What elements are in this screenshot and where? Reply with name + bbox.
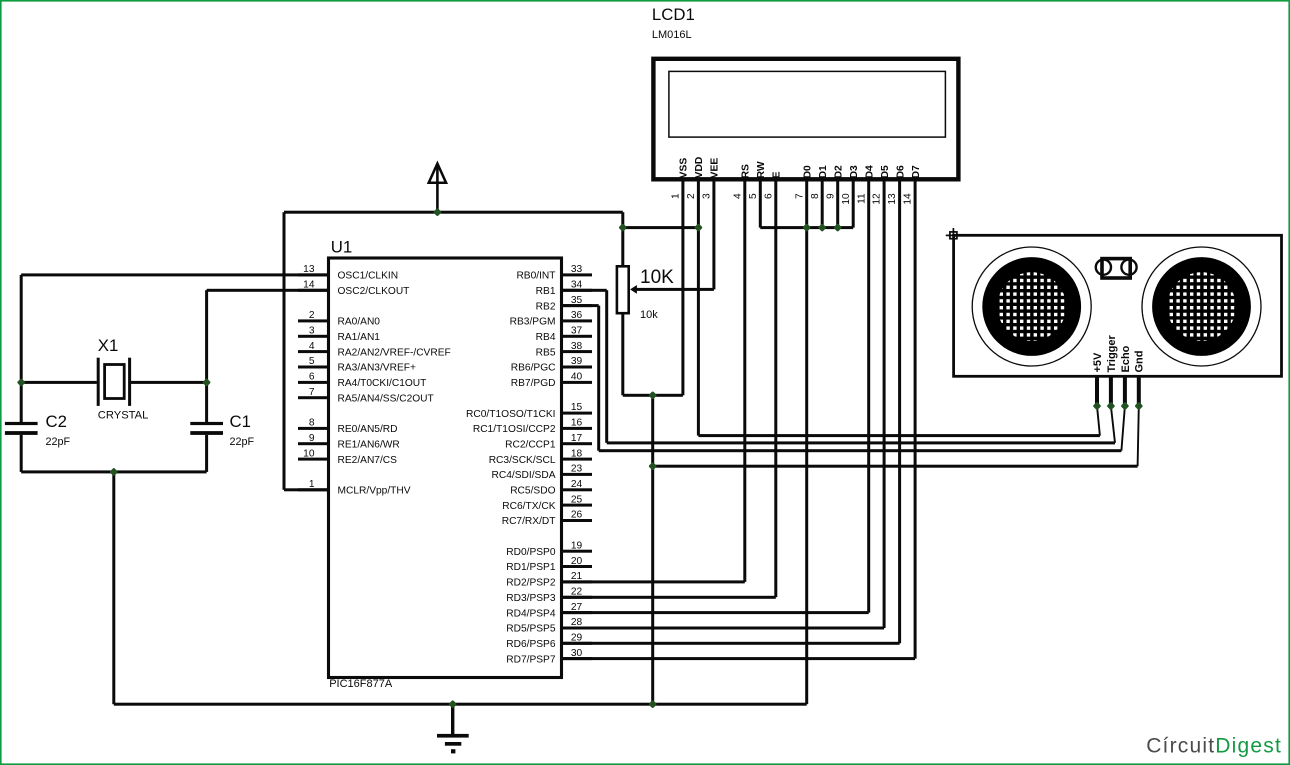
wire sensor Gnd return: [653, 465, 1138, 468]
U1 pin 29 RD6/PSP6 stub: [562, 642, 593, 645]
svg-text:RD6/PSP6: RD6/PSP6: [506, 639, 556, 650]
U1 pin 23 RC4/SDI/SDA stub: [562, 473, 593, 476]
wire LCD D0 column to ground rail: [805, 181, 808, 704]
svg-text:1: 1: [671, 193, 682, 199]
wire RW/D0-D3 tie bus: [760, 226, 853, 229]
U1 pin 27 RD4/PSP4 stub: [562, 611, 593, 614]
svg-text:22pF: 22pF: [46, 436, 71, 448]
crystal X1: [97, 358, 100, 406]
capacitor C1: [190, 422, 223, 425]
wire LCD D2 column: [836, 181, 839, 227]
svg-text:+5V: +5V: [1092, 352, 1104, 373]
U1 pin 25 RC6/TX/CK stub: [562, 504, 593, 507]
svg-text:6: 6: [309, 372, 315, 383]
svg-text:25: 25: [571, 494, 583, 505]
sensor pin Gnd stub: [1137, 376, 1141, 406]
U1 pin 4 RA2/AN2/VREF-/CVREF stub: [298, 350, 329, 353]
wire crystal rail to ground rail: [112, 472, 115, 704]
wire D5 to U1 RD5: [562, 627, 884, 630]
wire LCD RW column: [759, 181, 762, 227]
wire RB2 to sensor Echo: [599, 449, 1122, 452]
svg-text:20: 20: [571, 556, 583, 567]
U1 pin 16 RC1/T1OSI/CCP2 stub: [562, 427, 593, 430]
svg-text:6: 6: [763, 193, 774, 199]
wire U1 RB2 out: [562, 304, 599, 307]
wire pot top to VDD column: [623, 226, 699, 229]
wire pot bottom to VSS column: [623, 394, 683, 397]
svg-text:14: 14: [303, 279, 315, 290]
svg-text:2: 2: [686, 193, 697, 199]
svg-text:RE2/AN7/CS: RE2/AN7/CS: [338, 455, 398, 466]
U1 pin 28 RD5/PSP5 stub: [562, 627, 593, 630]
wire LCD E column: [774, 181, 777, 597]
wire left crystal rail: [20, 275, 23, 423]
wire LCD VSS to pot bottom: [681, 181, 684, 395]
sensor pin Trigger stub: [1109, 376, 1113, 406]
svg-text:OSC1/CLKIN: OSC1/CLKIN: [338, 271, 399, 282]
svg-text:34: 34: [571, 279, 583, 290]
U1 pin 7 RA5/AN4/SS/C2OUT stub: [298, 396, 329, 399]
svg-text:RB5: RB5: [536, 347, 556, 358]
capacitor C2: [5, 422, 38, 425]
svg-text:U1: U1: [331, 238, 352, 257]
wire OSC1 pin13 to left rail: [21, 273, 328, 276]
wire crystal right lead: [131, 381, 207, 384]
wire U1 RB1 out: [562, 289, 607, 292]
wire LCD VDD column: [697, 181, 700, 435]
U1 pin 6 RA4/T0CKI/C1OUT stub: [298, 381, 329, 384]
svg-text:RC5/SDO: RC5/SDO: [510, 486, 555, 497]
U1 pin 34 RB1 stub: [562, 289, 593, 292]
svg-text:C2: C2: [46, 412, 67, 431]
LCD1 screen window: [669, 71, 946, 137]
svg-text:2: 2: [309, 310, 315, 321]
wire crystal left lead: [21, 381, 97, 384]
svg-text:RD3/PSP3: RD3/PSP3: [506, 593, 556, 604]
U1 pin 20 RD1/PSP1 stub: [562, 565, 593, 568]
wire sensor +5V drop: [1097, 406, 1100, 436]
wire C1 bottom lead: [205, 435, 208, 472]
wire RS to U1 RD2: [562, 580, 745, 583]
U1 pin 13 OSC1/CLKIN stub: [298, 273, 329, 276]
svg-text:4: 4: [309, 341, 315, 352]
U1 pin 2 RA0/AN0 stub: [298, 319, 329, 322]
wire sensor Gnd drop: [1138, 406, 1139, 466]
potentiometer RV 10K body: [617, 266, 629, 313]
svg-text:D5: D5: [880, 165, 891, 178]
svg-text:RB2: RB2: [536, 301, 556, 312]
wire E to U1 RD3: [562, 596, 776, 599]
svg-text:D7: D7: [911, 165, 922, 178]
svg-text:CírcuitDigest: CírcuitDigest: [1146, 735, 1282, 758]
junction ground symbol node: [448, 700, 457, 709]
svg-text:9: 9: [825, 193, 836, 199]
ultrasonic sensor module HC-SR04 board: [954, 235, 1282, 376]
wire OSC2 pin14 to right rail: [207, 289, 329, 292]
svg-text:18: 18: [571, 448, 583, 459]
svg-text:LM016L: LM016L: [652, 29, 692, 41]
U1 pin 36 RB3/PGM stub: [562, 319, 593, 322]
wire LCD D4 column: [867, 181, 870, 612]
svg-text:D3: D3: [849, 165, 860, 178]
svg-text:15: 15: [571, 402, 583, 413]
svg-text:RD7/PSP7: RD7/PSP7: [506, 654, 556, 665]
svg-text:17: 17: [571, 433, 583, 444]
svg-text:RC1/T1OSI/CCP2: RC1/T1OSI/CCP2: [473, 424, 556, 435]
wire sensor Trigger drop: [1111, 406, 1115, 443]
sensor origin crosshair marker: [946, 228, 961, 243]
U1 pin 22 RD3/PSP3 stub: [562, 596, 593, 599]
svg-text:12: 12: [872, 193, 883, 205]
U1 pin 5 RA3/AN3/VREF+ stub: [298, 366, 329, 369]
svg-text:RC2/CCP1: RC2/CCP1: [505, 439, 556, 450]
svg-text:37: 37: [571, 326, 583, 337]
svg-text:14: 14: [903, 193, 914, 205]
junction pot top node: [618, 223, 627, 232]
svg-text:4: 4: [732, 193, 743, 199]
svg-text:RC6/TX/CK: RC6/TX/CK: [502, 501, 555, 512]
svg-text:X1: X1: [98, 336, 119, 355]
junction D2 tie: [833, 223, 842, 232]
svg-text:RB0/INT: RB0/INT: [516, 271, 555, 282]
wire RB1 vertical: [605, 290, 608, 443]
sensor pin Echo stub: [1123, 376, 1127, 406]
svg-text:RA0/AN0: RA0/AN0: [338, 317, 381, 328]
svg-text:16: 16: [571, 418, 583, 429]
svg-text:PIC16F877A: PIC16F877A: [329, 678, 393, 690]
U1 pin 30 RD7/PSP7 stub: [562, 657, 593, 660]
svg-text:RA1/AN1: RA1/AN1: [338, 332, 381, 343]
svg-text:VDD: VDD: [694, 157, 705, 179]
svg-text:RD5/PSP5: RD5/PSP5: [506, 624, 556, 635]
svg-text:RW: RW: [756, 161, 767, 178]
svg-text:Echo: Echo: [1120, 345, 1132, 372]
svg-text:RC3/SCK/SCL: RC3/SCK/SCL: [489, 455, 556, 466]
svg-text:RD4/PSP4: RD4/PSP4: [506, 608, 556, 619]
svg-text:3: 3: [309, 326, 315, 337]
svg-text:38: 38: [571, 341, 583, 352]
wire LCD D1 column: [821, 181, 824, 227]
svg-text:7: 7: [309, 387, 315, 398]
power +5V arrow: [436, 165, 439, 213]
svg-text:RB6/PGC: RB6/PGC: [511, 363, 556, 374]
U1 pin 19 RD0/PSP0 stub: [562, 550, 593, 553]
svg-text:RA4/T0CKI/C1OUT: RA4/T0CKI/C1OUT: [338, 378, 427, 389]
svg-text:RC4/SDI/SDA: RC4/SDI/SDA: [492, 470, 556, 481]
svg-text:MCLR/Vpp/THV: MCLR/Vpp/THV: [338, 486, 411, 497]
sensor pin +5V stub: [1095, 376, 1099, 406]
wire LCD RS column: [743, 181, 746, 582]
U1 pin 38 RB5 stub: [562, 350, 593, 353]
wire LCD VEE column: [712, 181, 715, 289]
svg-text:19: 19: [571, 540, 583, 551]
svg-text:RD2/PSP2: RD2/PSP2: [506, 578, 556, 589]
junction on +5V rail: [433, 208, 442, 217]
svg-text:VSS: VSS: [679, 158, 690, 179]
svg-text:10k: 10k: [640, 309, 658, 321]
svg-text:5: 5: [309, 356, 315, 367]
junction VDD node: [694, 223, 703, 232]
svg-text:8: 8: [810, 193, 821, 199]
junction pot bottom ground node: [648, 391, 657, 400]
svg-text:RA2/AN2/VREF-/CVREF: RA2/AN2/VREF-/CVREF: [338, 347, 451, 358]
wire D7 to U1 RD7: [562, 657, 915, 660]
svg-text:C1: C1: [230, 412, 251, 431]
microcontroller U1 PIC16F877A body: [329, 258, 562, 678]
wire crystal bottom rail: [21, 470, 206, 473]
svg-text:RD1/PSP1: RD1/PSP1: [506, 562, 556, 573]
svg-text:OSC2/CLKOUT: OSC2/CLKOUT: [338, 286, 410, 297]
pot wiper arrow: [630, 285, 637, 294]
svg-text:D6: D6: [895, 165, 906, 178]
svg-text:RC0/T1OSO/T1CKI: RC0/T1OSO/T1CKI: [466, 409, 555, 420]
wire LCD D6 column: [898, 181, 901, 643]
svg-text:D2: D2: [834, 165, 845, 178]
wire VDD to sensor +5V: [698, 434, 1100, 437]
wire C2 bottom lead: [20, 435, 23, 472]
svg-text:8: 8: [309, 418, 315, 429]
svg-text:5: 5: [748, 193, 759, 199]
svg-text:RS: RS: [741, 164, 752, 178]
svg-text:13: 13: [887, 193, 898, 205]
wire right crystal rail: [205, 290, 208, 422]
svg-text:VEE: VEE: [710, 158, 721, 179]
svg-text:CRYSTAL: CRYSTAL: [98, 409, 149, 421]
wire RB2 vertical: [597, 306, 600, 451]
svg-text:10: 10: [841, 193, 852, 205]
wire RB1 to sensor Trigger: [607, 441, 1115, 444]
svg-text:7: 7: [794, 193, 805, 199]
svg-text:RE0/AN5/RD: RE0/AN5/RD: [338, 424, 398, 435]
svg-text:RB4: RB4: [536, 332, 556, 343]
wire LCD D7 column: [914, 181, 917, 658]
U1 pin 33 RB0/INT stub: [562, 273, 593, 276]
svg-text:11: 11: [856, 193, 867, 204]
junction right crystal node: [202, 378, 211, 387]
svg-text:26: 26: [571, 510, 583, 521]
wire sensor Echo drop: [1121, 406, 1125, 451]
wire pot bottom: [621, 313, 624, 395]
U1 pin 17 RC2/CCP1 stub: [562, 442, 593, 445]
junction D0 tie: [802, 223, 811, 232]
U1 pin 9 RE1/AN6/WR stub: [298, 442, 329, 445]
wire top rail to pot: [621, 212, 624, 266]
wire LCD D5 column: [883, 181, 886, 628]
sensor right transducer: [1142, 247, 1261, 366]
U1 pin 3 RA1/AN1 stub: [298, 335, 329, 338]
wire pot wiper to VEE column: [636, 288, 714, 291]
sensor pin Gnd junction: [1134, 402, 1143, 411]
wire D4 to U1 RD4: [562, 611, 869, 614]
U1 pin 10 RE2/AN7/CS stub: [298, 458, 329, 461]
svg-text:RB3/PGM: RB3/PGM: [510, 317, 556, 328]
ground symbol: [451, 704, 454, 734]
svg-text:22pF: 22pF: [230, 436, 255, 448]
U1 pin 39 RB6/PGC stub: [562, 366, 593, 369]
svg-text:E: E: [772, 171, 783, 178]
U1 pin 35 RB2 stub: [562, 304, 593, 307]
U1 pin 14 OSC2/CLKOUT stub: [298, 289, 329, 292]
sensor left transducer: [972, 247, 1091, 366]
junction D1 tie: [818, 223, 827, 232]
svg-text:LCD1: LCD1: [652, 5, 695, 24]
svg-text:Trigger: Trigger: [1106, 334, 1118, 372]
svg-text:RA5/AN4/SS/C2OUT: RA5/AN4/SS/C2OUT: [338, 393, 434, 404]
wire MCLR pin 1 link: [284, 488, 329, 491]
sensor pin +5V junction: [1093, 402, 1102, 411]
lcd display LCD1 LM016L body: [653, 59, 958, 180]
svg-text:33: 33: [571, 264, 583, 275]
svg-text:RC7/RX/DT: RC7/RX/DT: [502, 516, 556, 527]
svg-text:10K: 10K: [640, 267, 674, 288]
svg-text:Gnd: Gnd: [1134, 351, 1146, 373]
U1 pin 37 RB4 stub: [562, 335, 593, 338]
svg-text:RE1/AN6/WR: RE1/AN6/WR: [338, 439, 400, 450]
sensor pin Echo junction: [1121, 402, 1130, 411]
svg-text:9: 9: [309, 433, 315, 444]
junction sensor gnd tie: [648, 462, 657, 471]
svg-text:RB7/PGD: RB7/PGD: [511, 378, 556, 389]
U1 pin 8 RE0/AN5/RD stub: [298, 427, 329, 430]
junction pot ground node on rail: [648, 700, 657, 709]
wire pot ground vertical: [651, 395, 654, 704]
wire top +5V rail: [284, 211, 623, 214]
U1 pin 1 MCLR/Vpp/THV stub: [298, 488, 329, 491]
wire LCD D3 column: [852, 181, 855, 227]
svg-text:RD0/PSP0: RD0/PSP0: [506, 547, 556, 558]
U1 pin 18 RC3/SCK/SCL stub: [562, 458, 593, 461]
U1 pin 21 RD2/PSP2 stub: [562, 580, 593, 583]
svg-text:3: 3: [702, 193, 713, 199]
junction left crystal node: [17, 378, 26, 387]
svg-text:RB1: RB1: [536, 286, 556, 297]
sensor crystal oscillator cylinder: [1096, 260, 1111, 275]
svg-text:D4: D4: [865, 165, 876, 178]
U1 pin 26 RC7/RX/DT stub: [562, 519, 593, 522]
svg-text:24: 24: [571, 479, 583, 490]
svg-text:23: 23: [571, 464, 583, 475]
svg-text:RA3/AN3/VREF+: RA3/AN3/VREF+: [338, 363, 416, 374]
U1 pin 15 RC0/T1OSO/T1CKI stub: [562, 412, 593, 415]
junction crystal ground node: [109, 468, 118, 477]
sensor pin Trigger junction: [1107, 402, 1116, 411]
U1 pin 24 RC5/SDO stub: [562, 488, 593, 491]
svg-text:D1: D1: [818, 165, 829, 178]
wire ground rail: [114, 703, 807, 706]
svg-text:39: 39: [571, 356, 583, 367]
svg-text:40: 40: [571, 372, 583, 383]
U1 pin 40 RB7/PGD stub: [562, 381, 593, 384]
svg-text:D0: D0: [803, 165, 814, 178]
svg-text:10: 10: [303, 448, 315, 459]
wire D6 to U1 RD6: [562, 642, 900, 645]
wire MCLR left rail: [283, 212, 286, 490]
svg-text:36: 36: [571, 310, 583, 321]
